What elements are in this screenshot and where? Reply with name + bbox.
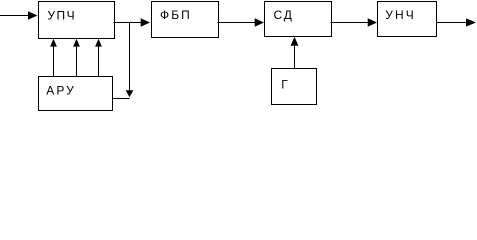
wire UNCH output arrow: [437, 18, 477, 26]
wire SD to UNCH arrow: [331, 18, 378, 27]
wire FBP to SD arrow: [218, 18, 265, 27]
wire UPCH to FBP arrow: [114, 18, 151, 27]
wire ARU to UPCH arrow 2: [73, 39, 80, 77]
svg-text:УНЧ: УНЧ: [385, 8, 413, 22]
block UPCH (IF amplifier): [39, 2, 115, 39]
svg-text:СД: СД: [274, 8, 292, 22]
svg-text:УПЧ: УПЧ: [47, 8, 74, 22]
block G (generator): [272, 69, 317, 105]
wire feedback drop junction to ARU: [112, 23, 133, 99]
wire input arrow: [0, 11, 38, 20]
block SD (sync detector): [265, 2, 332, 37]
block UNCH (AF amplifier): [378, 2, 437, 37]
wire ARU to UPCH arrow 3: [95, 39, 102, 77]
wire G to SD arrow: [291, 37, 299, 69]
block ARU (AGC): [39, 77, 113, 111]
svg-text:АРУ: АРУ: [46, 83, 74, 97]
block FBP (filter): [152, 2, 219, 38]
svg-text:Г: Г: [281, 77, 288, 91]
svg-text:ФБП: ФБП: [160, 8, 190, 22]
wire ARU to UPCH arrow 1: [50, 39, 57, 77]
